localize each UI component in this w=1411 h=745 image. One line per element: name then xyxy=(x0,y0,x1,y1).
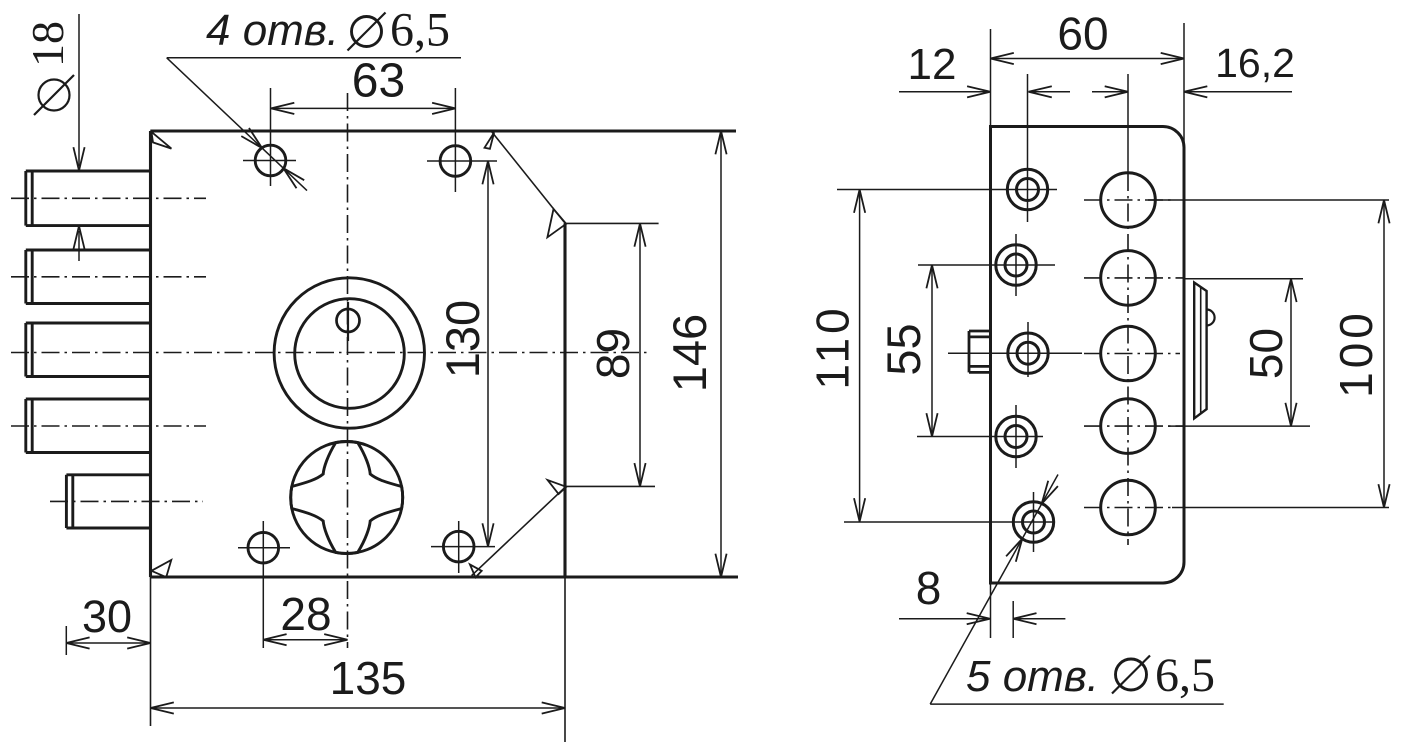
dim 89 text xyxy=(587,328,639,379)
dim 146 top arrow xyxy=(715,131,726,154)
dim 63 right arrow xyxy=(432,103,455,114)
dim 30 line xyxy=(66,642,150,644)
dim 28 line xyxy=(263,639,347,641)
leader arrow into hole E lower xyxy=(1006,539,1022,562)
dim 63 left arrow xyxy=(271,103,294,114)
bolt 3 outline xyxy=(26,323,151,377)
lock body bottom edge xyxy=(151,575,739,578)
label 4 otv xyxy=(206,6,339,55)
svg-text:135: 135 xyxy=(330,652,407,704)
svg-text:110: 110 xyxy=(807,304,859,389)
diagonal2 arrow down xyxy=(470,564,482,577)
bolt hole 4 centerline xyxy=(1084,425,1184,427)
bolt hole 1 (side view) xyxy=(1101,173,1156,228)
lock cylinder outer circle xyxy=(274,278,424,428)
svg-text:130: 130 xyxy=(436,300,489,378)
dim 18 arrow down xyxy=(73,147,84,170)
dim 110 text xyxy=(807,304,859,389)
reference diagonal bottom-right xyxy=(472,486,566,575)
dim 12 right-pointing arrow xyxy=(967,86,990,97)
dim 135 line xyxy=(151,707,566,709)
dim 146 bottom arrow xyxy=(715,554,726,577)
dim 60 line xyxy=(991,58,1185,60)
bolt hole 2 (side view) xyxy=(1101,251,1156,306)
lock body left edge xyxy=(149,131,152,577)
lock body top edge (front view) xyxy=(151,129,737,132)
89-dim bottom extension line xyxy=(566,485,655,487)
bolt hole 3 (side view) xyxy=(1101,326,1156,381)
leader arrow into hole upper xyxy=(241,128,262,148)
bolt hole 3 centerline xyxy=(1084,353,1180,355)
bolt hole 5 centerline xyxy=(1084,507,1172,509)
dim 100 top extension xyxy=(1148,199,1389,201)
dim 16.2 left-pointing arrow xyxy=(1184,86,1207,97)
svg-text:89: 89 xyxy=(587,328,639,379)
dim 55 bottom arrow xyxy=(926,413,937,436)
dim 100 bottom extension xyxy=(1172,507,1389,509)
body left edge extension below xyxy=(150,577,152,726)
dim 130 bottom arrow xyxy=(482,523,493,546)
svg-text:6,5: 6,5 xyxy=(390,4,450,57)
bolt 1 centerline xyxy=(11,197,206,199)
dim 30 extension xyxy=(65,626,67,655)
svg-text:28: 28 xyxy=(280,588,331,640)
bolt hole 4 (side view) xyxy=(1101,399,1156,454)
dim 146 line xyxy=(720,131,722,577)
lock cylinder inner circle xyxy=(295,299,405,409)
dim 55 text xyxy=(877,323,930,375)
dim 16.2 line xyxy=(1184,91,1292,93)
faceplate right edge extension above xyxy=(1183,23,1185,148)
dim 130 line xyxy=(487,161,489,547)
dim 60 right arrow xyxy=(1161,53,1184,64)
dim 8 right-pointing arrow xyxy=(967,613,990,624)
svg-text:5 отв.: 5 отв. xyxy=(966,652,1099,701)
vertical centerline of front view xyxy=(347,93,349,648)
bolt holes vertical centerline xyxy=(1127,74,1129,545)
dim 60 text xyxy=(1057,8,1108,60)
mounting hole top-right xyxy=(427,88,497,192)
label diameter symbol 18 xyxy=(22,21,74,115)
faceplate left edge extension below xyxy=(990,583,992,638)
dim 8 line xyxy=(899,618,1065,620)
dim 12 extension xyxy=(1027,74,1029,158)
svg-text:30: 30 xyxy=(82,591,132,642)
bolt 5 centerline xyxy=(50,500,203,502)
dim 30 right arrow xyxy=(127,637,150,648)
dim 135 left arrow xyxy=(151,702,174,713)
svg-text:146: 146 xyxy=(663,314,716,392)
svg-text:4 отв.: 4 отв. xyxy=(206,6,339,55)
dim 146 text xyxy=(663,314,716,392)
mounting hole bottom-left xyxy=(238,521,290,648)
svg-text:50: 50 xyxy=(1240,328,1292,379)
svg-text:8: 8 xyxy=(916,562,942,614)
bolt hole 5 (side view) xyxy=(1101,480,1156,535)
dim 110 top arrow xyxy=(854,190,865,213)
bolt 1 outline xyxy=(26,171,151,226)
dim 100 line xyxy=(1383,200,1385,508)
svg-text:100: 100 xyxy=(1330,309,1382,398)
faceplate body outline xyxy=(991,127,1185,584)
dim line for diameter 18 xyxy=(78,14,80,261)
corner tick bottom-left xyxy=(151,560,171,577)
dim 60 left arrow xyxy=(991,53,1014,64)
lock body right edge xyxy=(563,223,566,577)
dim 8 extension xyxy=(1012,601,1014,638)
reference diagonal top-right xyxy=(492,132,565,223)
svg-text:60: 60 xyxy=(1057,8,1108,60)
latch tab xyxy=(969,331,991,372)
dim 16.2 right-pointing arrow xyxy=(1105,86,1128,97)
dim 55 line xyxy=(931,265,933,437)
keyhole circle xyxy=(291,442,403,554)
dim 28 text xyxy=(280,588,331,640)
dim 30 text xyxy=(82,591,132,642)
bolt 2 outline xyxy=(26,250,151,304)
leader line 5 holes xyxy=(930,475,1223,705)
strike protrusion xyxy=(1194,283,1206,419)
bolt 4 centerline xyxy=(11,425,206,427)
countersunk hole D xyxy=(917,405,1043,468)
dim 8 left-pointing arrow xyxy=(1013,613,1036,624)
cross-shaped keyhole xyxy=(291,442,403,554)
label dia 6.5 top xyxy=(348,4,451,57)
dim 100 bottom arrow xyxy=(1378,484,1389,507)
diagonal2 arrow up xyxy=(548,480,567,494)
dim 130 text xyxy=(436,300,489,378)
svg-text:12: 12 xyxy=(908,40,957,89)
svg-text:55: 55 xyxy=(877,323,930,375)
dim 50 top arrow xyxy=(1285,279,1296,302)
svg-text:16,2: 16,2 xyxy=(1215,40,1295,86)
dim 89 top arrow xyxy=(634,223,645,246)
countersunk hole B xyxy=(918,234,1055,296)
protrusion knob xyxy=(1207,310,1215,326)
diagonal arrow down xyxy=(547,209,566,237)
bolt 2 centerline xyxy=(11,276,206,278)
dim 50 text xyxy=(1240,328,1292,379)
dim 50 bottom arrow xyxy=(1285,403,1296,426)
dim 110 bottom arrow xyxy=(854,498,865,521)
cylinder fixing screw circle xyxy=(337,309,360,332)
dim 12 left-pointing arrow xyxy=(1029,86,1052,97)
label dia 6.5 bottom xyxy=(1112,649,1215,702)
bolt hole 2 centerline xyxy=(1084,277,1184,279)
dim 28 right arrow xyxy=(324,634,347,645)
dim 28 left arrow xyxy=(263,634,286,645)
mounting hole top-left xyxy=(243,88,296,186)
dim 63 line xyxy=(271,107,455,109)
bolt hole 1 centerline xyxy=(1084,199,1172,201)
dim 89 line xyxy=(639,223,641,486)
89-dim top extension line xyxy=(564,222,659,224)
dim 50 bottom extension xyxy=(1168,425,1310,427)
corner tick top-left xyxy=(151,132,171,149)
dim 89 bottom arrow xyxy=(634,463,645,486)
bolt 4 outline xyxy=(26,399,151,453)
dim 50 top extension xyxy=(1184,278,1303,280)
dim 135 text xyxy=(330,652,407,704)
dim 12 line xyxy=(899,91,1128,93)
dim 63 text xyxy=(352,55,405,108)
main horizontal centerline xyxy=(11,352,648,354)
leader arrow into hole E upper xyxy=(1042,481,1058,504)
dim 18 arrow up xyxy=(73,226,84,249)
faceplate left edge extension above xyxy=(990,29,992,127)
dim 8 text xyxy=(916,562,942,614)
label 5 otv xyxy=(966,652,1099,701)
dim 110 line xyxy=(859,190,861,522)
dim 50 line xyxy=(1290,279,1292,426)
dim 130 top arrow xyxy=(482,161,493,184)
diagonal arrow up xyxy=(485,133,495,149)
countersunk hole A xyxy=(837,158,1057,222)
dim 100 text xyxy=(1330,309,1382,398)
body right edge extension below xyxy=(564,577,566,742)
dim 100 top arrow xyxy=(1378,200,1389,223)
svg-text:63: 63 xyxy=(352,55,405,108)
leader line 4 holes xyxy=(167,58,461,191)
dim 16.2 text xyxy=(1215,40,1295,86)
svg-text:18: 18 xyxy=(22,21,73,67)
screw slot line xyxy=(347,302,349,341)
bolt 5 outline xyxy=(66,475,150,528)
countersunk hole E xyxy=(844,492,1054,552)
dim 30 left arrow xyxy=(66,637,89,648)
countersunk hole C xyxy=(948,322,1082,377)
leader arrow into hole lower xyxy=(283,168,304,188)
mounting hole bottom-right xyxy=(431,521,495,573)
dim 135 right arrow xyxy=(542,702,565,713)
dim 12 text xyxy=(908,40,957,89)
dim 55 top arrow xyxy=(926,265,937,288)
svg-text:6,5: 6,5 xyxy=(1155,649,1215,702)
